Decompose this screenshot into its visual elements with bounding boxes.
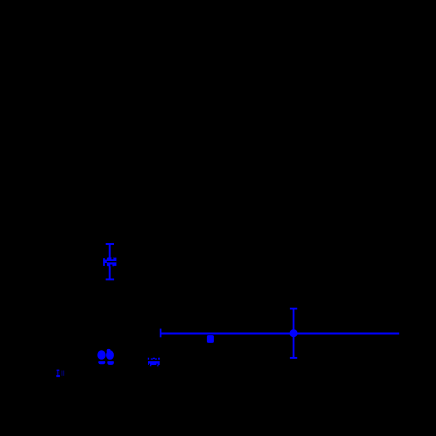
dim small label	[56, 370, 64, 378]
node B marker	[290, 329, 298, 337]
node A horizontal error bar	[104, 261, 115, 263]
node B bottom cap	[290, 357, 297, 359]
node A top cap	[106, 243, 114, 245]
node B vertical error bar	[293, 309, 295, 358]
round node left	[97, 350, 105, 364]
node A marker	[105, 257, 115, 266]
node A bottom cap	[106, 278, 114, 280]
square marker under wire	[207, 335, 214, 343]
round node right	[106, 349, 114, 365]
black overdraw line through round nodes and label	[94, 360, 162, 366]
node B top cap	[290, 308, 297, 310]
node A black overdraw band	[107, 257, 117, 266]
wire left cap	[160, 329, 162, 338]
node A vertical error bar	[109, 244, 111, 280]
small label block	[148, 358, 160, 367]
node A right cap	[114, 258, 116, 266]
wire: long horizontal line	[160, 333, 399, 335]
node A left cap	[103, 258, 105, 266]
